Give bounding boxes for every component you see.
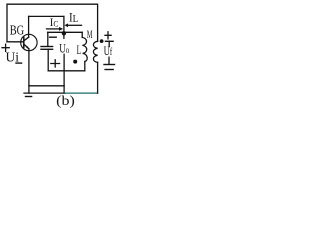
Ic arrowhead: [59, 27, 63, 31]
wire: emitter rail: [29, 85, 64, 87]
inductor L top lead: [81, 32, 83, 37]
transformer primary polarity dot: [73, 60, 77, 64]
Uf top terminal bar: [106, 40, 114, 42]
Uf bottom terminal ground stem: [108, 57, 110, 64]
Uf bottom terminal ground first bar: [104, 64, 115, 66]
wire: base lead: [7, 41, 24, 43]
capacitor C plates: [41, 46, 53, 48]
svg-text:Ui: Ui: [6, 51, 20, 66]
wire: inner top horizontal: [29, 15, 64, 17]
svg-text:L: L: [77, 43, 82, 57]
junction node dot: [62, 31, 66, 35]
transistor BG circle: [21, 34, 37, 50]
ground second bar left: [26, 96, 32, 98]
minus sign of Uo: [50, 36, 57, 38]
transistor BG base bar: [23, 37, 25, 47]
transformer secondary coil: [93, 41, 97, 62]
plus sign of Uf: [105, 32, 111, 39]
wire: Uo reference lower segment: [63, 54, 65, 93]
svg-text:Uf: Uf: [104, 44, 113, 58]
Uf bottom terminal ground second bar: [105, 69, 113, 71]
wire: tank top rail: [48, 31, 83, 33]
wire: junction drop: [63, 16, 65, 33]
svg-text:IL: IL: [69, 11, 78, 25]
wire: tank bottom rail: [48, 70, 85, 72]
wire: right vertical lower: [97, 62, 99, 93]
capacitor C top lead: [47, 32, 49, 46]
svg-text:Uo: Uo: [59, 41, 69, 56]
inductor L primary coil: [82, 37, 87, 61]
transistor emitter arrowhead: [26, 46, 29, 48]
transistor BG collector diagonal: [24, 37, 29, 41]
wire: Uo reference upper stub: [63, 33, 65, 38]
svg-text:BG: BG: [10, 24, 24, 39]
plus sign of Ui: [2, 44, 9, 51]
minus sign of Ui: [16, 62, 22, 64]
inductor L bottom lead: [84, 62, 86, 71]
transformer secondary polarity dot: [100, 39, 104, 43]
transistor BG emitter diagonal: [24, 44, 29, 49]
wire: bottom ground rail teal part: [65, 92, 98, 94]
wire: bottom ground rail black part: [24, 92, 65, 94]
Ic current arrow line: [47, 28, 60, 30]
IL arrowhead: [65, 23, 69, 27]
IL current arrow line: [68, 24, 82, 26]
wire: collector vertical: [28, 16, 30, 37]
svg-text:M: M: [87, 27, 93, 41]
svg-text:(b): (b): [56, 93, 75, 109]
capacitor C bottom lead: [47, 49, 49, 71]
wire: emitter vertical: [28, 49, 30, 93]
wire: outer loop left/top/right: [7, 4, 98, 42]
plus sign of Uo: [51, 60, 60, 67]
